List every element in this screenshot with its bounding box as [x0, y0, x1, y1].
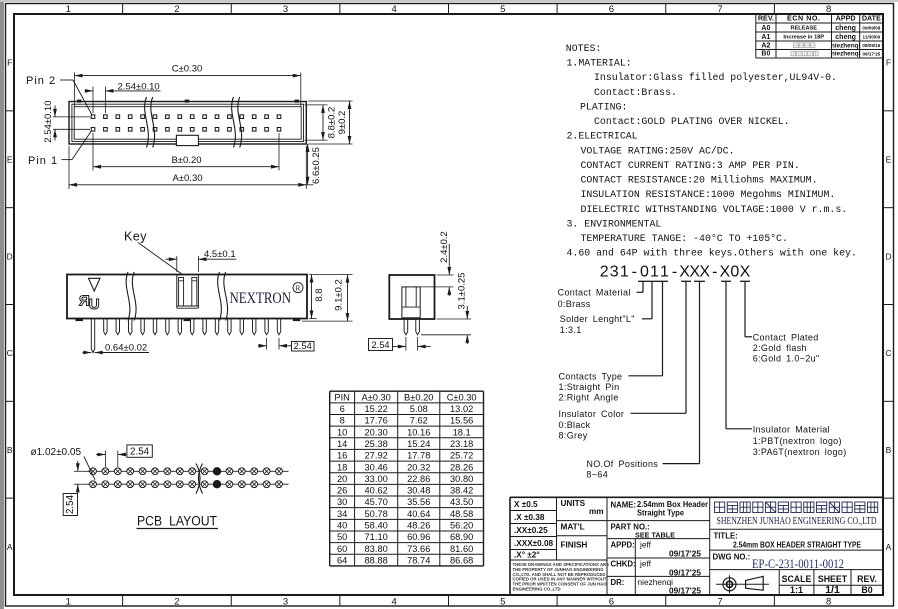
svg-text:TEMPERATURE TANGE: -40°C TO +1: TEMPERATURE TANGE: -40°C TO +105°C. [581, 233, 788, 244]
svg-text:C±0.30: C±0.30 [447, 392, 477, 402]
svg-text:B0: B0 [761, 51, 770, 58]
revision table grid [756, 13, 883, 15]
dimension C line [75, 75, 301, 77]
svg-text:25.38: 25.38 [365, 439, 388, 449]
svg-text:U: U [89, 296, 100, 313]
side view pitch extension lines [266, 338, 268, 350]
svg-text:A±0.30: A±0.30 [172, 173, 202, 184]
svg-text:2.4±0.2: 2.4±0.2 [439, 231, 450, 263]
svg-text:ECN NO.: ECN NO. [787, 14, 820, 23]
svg-text:2.54: 2.54 [371, 340, 389, 350]
top view center tab [176, 135, 198, 145]
svg-text:F: F [886, 58, 891, 68]
svg-text:73.66: 73.66 [407, 544, 430, 554]
svg-text:2: 2 [174, 597, 179, 608]
svg-text:SCALE: SCALE [782, 574, 812, 584]
svg-text:Solder Lenght"L": Solder Lenght"L" [560, 314, 635, 324]
dimension A extension lines [68, 146, 70, 189]
svg-text:6: 6 [609, 4, 614, 15]
side view break left [126, 272, 130, 321]
svg-text:8:Grey: 8:Grey [559, 431, 588, 441]
svg-text:34: 34 [337, 509, 347, 519]
svg-text:APPD: APPD [836, 14, 856, 23]
svg-text:6:Gold 1.0~2u": 6:Gold 1.0~2u" [753, 354, 820, 364]
svg-text:Contact Plated: Contact Plated [753, 333, 819, 343]
svg-text:B: B [7, 445, 13, 455]
svg-text:3: 3 [610, 264, 619, 281]
svg-text:1.MATERIAL:: 1.MATERIAL: [567, 58, 632, 69]
side view pitch line [258, 345, 267, 347]
side view pitch text box [292, 341, 315, 351]
svg-text:3: 3 [283, 4, 288, 15]
svg-text:20: 20 [337, 474, 347, 484]
svg-text:64: 64 [337, 555, 347, 565]
svg-text:56.20: 56.20 [450, 521, 473, 531]
svg-text:R: R [296, 284, 301, 292]
svg-text:8: 8 [826, 597, 831, 608]
top view cavity [74, 107, 301, 140]
svg-text:23.18: 23.18 [450, 439, 473, 449]
pcb row pitch text box [63, 494, 77, 516]
svg-text:PCB LAYOUT: PCB LAYOUT [137, 514, 217, 529]
svg-text:CONTACT CURRENT RATING:3 AMP P: CONTACT CURRENT RATING:3 AMP PER PIN. [581, 160, 800, 171]
svg-text:8: 8 [826, 4, 831, 15]
svg-text:F: F [7, 58, 12, 68]
svg-text:REV.: REV. [857, 574, 877, 584]
svg-text:REV.: REV. [758, 14, 774, 23]
svg-text:2.54mm BOX HEADER STRAIGHT TYP: 2.54mm BOX HEADER STRAIGHT TYPE [733, 539, 861, 549]
svg-text:15.56: 15.56 [450, 416, 473, 426]
svg-text:A: A [886, 542, 892, 552]
svg-text:0: 0 [640, 264, 649, 281]
grid tick marks [122, 4, 124, 15]
dimension B line [93, 166, 279, 168]
svg-text:58.40: 58.40 [365, 521, 388, 531]
side view key slot prongs [179, 277, 184, 306]
svg-text:11/30/09: 11/30/09 [863, 34, 881, 39]
svg-text:PIN: PIN [334, 392, 350, 402]
svg-text:E: E [7, 155, 13, 165]
svg-text:3:PA6T(nextron logo): 3:PA6T(nextron logo) [753, 447, 847, 457]
svg-text:CHKD:: CHKD: [611, 560, 636, 569]
svg-text:0.64±0.02: 0.64±0.02 [105, 342, 147, 353]
svg-text:C: C [885, 348, 891, 358]
svg-text:DIELECTRIC WITHSTANDING VOLTAG: DIELECTRIC WITHSTANDING VOLTAGE:1000 V r… [581, 204, 848, 215]
svg-text:INSULATION RESISTANCE:1000 Meg: INSULATION RESISTANCE:1000 Megohms MINIM… [581, 189, 836, 200]
svg-text:7: 7 [717, 597, 722, 608]
svg-text:13.02: 13.02 [450, 404, 473, 414]
dimension row pitch line [54, 106, 56, 117]
svg-text:7.62: 7.62 [410, 416, 428, 426]
svg-text:2.54: 2.54 [294, 341, 312, 351]
svg-text:33.00: 33.00 [365, 474, 388, 484]
svg-text:DWG NO.:: DWG NO.: [713, 552, 751, 561]
svg-text:10: 10 [337, 427, 347, 437]
svg-text:22.86: 22.86 [407, 474, 430, 484]
svg-text:20.30: 20.30 [365, 427, 388, 437]
svg-text:40: 40 [337, 521, 347, 531]
svg-text:6: 6 [609, 597, 614, 608]
svg-text:2.54±0.10: 2.54±0.10 [43, 100, 54, 142]
svg-text:48.58: 48.58 [450, 509, 473, 519]
svg-text:cheng: cheng [835, 25, 856, 32]
svg-text:A: A [7, 542, 13, 552]
svg-text:NAME:: NAME: [611, 501, 637, 510]
svg-text:Straight Type: Straight Type [637, 509, 685, 518]
svg-text:9±0.2: 9±0.2 [337, 111, 348, 135]
svg-text:30.48: 30.48 [407, 486, 430, 496]
svg-text:D: D [885, 251, 891, 261]
svg-text:10.16: 10.16 [407, 427, 430, 437]
projection symbol [716, 583, 769, 585]
scan edge left [0, 0, 4, 609]
molding mark triangle [89, 278, 101, 291]
svg-text:60.96: 60.96 [407, 532, 430, 542]
leader Key [138, 243, 182, 274]
svg-text:VOLTAGE RATING:250V AC/DC.: VOLTAGE RATING:250V AC/DC. [581, 145, 735, 156]
svg-text:3. ENVIRONMENTAL: 3. ENVIRONMENTAL [567, 218, 662, 229]
svg-text:PLATING:: PLATING: [580, 101, 627, 112]
scan edge top [0, 0, 898, 2]
svg-text:3: 3 [283, 597, 288, 608]
svg-text:27.92: 27.92 [365, 451, 388, 461]
svg-text:8.8: 8.8 [314, 288, 325, 301]
leader Pin 1 [62, 159, 73, 161]
dimension 9 line [349, 101, 351, 144]
svg-text:1: 1 [66, 597, 71, 608]
svg-text:C: C [7, 348, 13, 358]
svg-text:2.54: 2.54 [130, 447, 150, 458]
svg-text:-: - [632, 264, 637, 281]
registered trademark symbol [293, 283, 303, 293]
svg-text:Insulator:Glass filled polyest: Insulator:Glass filled polyester,UL94V-0… [594, 72, 837, 83]
svg-text:81.60: 81.60 [450, 544, 473, 554]
svg-text:09/17'25: 09/17'25 [669, 585, 701, 595]
svg-text:SEE TABLE: SEE TABLE [635, 531, 675, 540]
svg-text:-: - [672, 264, 677, 281]
svg-text:40.64: 40.64 [407, 509, 430, 519]
svg-text:.XXX±0.08: .XXX±0.08 [514, 539, 554, 548]
svg-text:A2: A2 [761, 42, 770, 49]
side view standoff bosses [76, 319, 84, 322]
side view key slot walls [176, 275, 178, 309]
svg-text:-: - [712, 264, 717, 281]
end view pitch text box [369, 339, 393, 351]
title block grid [510, 496, 883, 498]
svg-text:68.90: 68.90 [450, 532, 473, 542]
dimension 8.8 side line [311, 275, 313, 319]
side view right extension lines [309, 274, 353, 276]
svg-text:86.68: 86.68 [450, 555, 473, 565]
svg-text:2:Gold flash: 2:Gold flash [753, 343, 807, 353]
svg-text:9.1±0.2: 9.1±0.2 [333, 279, 344, 311]
svg-text:2.54: 2.54 [65, 494, 76, 514]
pcb pitch dim line [96, 454, 105, 456]
svg-text:C±0.30: C±0.30 [172, 64, 203, 75]
svg-text:5: 5 [500, 4, 505, 15]
svg-text:X: X [740, 264, 751, 281]
svg-text:08/09/16: 08/09/16 [862, 43, 880, 48]
svg-text:NOTES:: NOTES: [566, 43, 602, 54]
svg-text:SHENZHEN JUNHAO ENGINEERING CO: SHENZHEN JUNHAO ENGINEERING CO.,LTD [717, 516, 877, 527]
dimension 2.54 top line [85, 90, 94, 92]
pcb pitch text box [127, 445, 152, 457]
top view right extension lines [308, 100, 353, 102]
svg-text:16: 16 [337, 451, 347, 461]
dimension B extension lines [92, 133, 94, 171]
svg-text:Pin 1: Pin 1 [28, 155, 58, 167]
dimension 6.6 line [307, 144, 309, 185]
svg-text:4: 4 [392, 4, 397, 15]
svg-text:2.ELECTRICAL: 2.ELECTRICAL [567, 131, 638, 142]
svg-text:09/17'25: 09/17'25 [669, 549, 701, 559]
pcb break line [199, 464, 203, 494]
svg-text:niezhenqi: niezhenqi [831, 51, 861, 58]
svg-text:1:Straight Pin: 1:Straight Pin [559, 382, 620, 392]
top view body outline [69, 102, 306, 145]
pcb row pitch dim line [77, 461, 79, 471]
pcb pads (2 rows x 16) [90, 468, 97, 475]
svg-text:48.26: 48.26 [407, 521, 430, 531]
pcb pitch extension lines [104, 451, 106, 468]
svg-text:cheng: cheng [835, 34, 856, 41]
dimension 4.5 line [166, 258, 177, 260]
svg-text:X: X [699, 264, 710, 281]
svg-text:2: 2 [174, 4, 179, 15]
svg-text:Contact Material: Contact Material [558, 288, 631, 298]
svg-text:5: 5 [500, 597, 505, 608]
part number callout leaders [638, 280, 648, 282]
svg-text:4.60 and 64P with three keys.O: 4.60 and 64P with three keys.Others with… [567, 248, 857, 259]
top view break line left [145, 97, 149, 148]
svg-text:17.76: 17.76 [365, 416, 388, 426]
UL recognized mark [79, 293, 100, 314]
svg-text:.X ±0.38: .X ±0.38 [514, 513, 545, 522]
svg-text:Contact:Brass.: Contact:Brass. [594, 87, 677, 98]
side view pins [91, 319, 94, 353]
svg-text:40.62: 40.62 [365, 486, 388, 496]
svg-text:2.54±0.10: 2.54±0.10 [118, 82, 160, 93]
svg-text:Increase in 18P: Increase in 18P [783, 35, 824, 41]
svg-text:EP-C-231-0011-0012: EP-C-231-0011-0012 [752, 557, 844, 571]
svg-text:71.10: 71.10 [365, 532, 388, 542]
svg-text:FINISH: FINISH [561, 541, 588, 550]
company chinese name [715, 502, 725, 513]
dimension 2.4 extension lines [437, 274, 454, 276]
svg-text:A1: A1 [761, 34, 770, 41]
svg-text:15.24: 15.24 [407, 439, 430, 449]
svg-text:8~64: 8~64 [586, 470, 608, 480]
svg-text:0:Brass: 0:Brass [558, 299, 591, 309]
svg-text:17.78: 17.78 [407, 451, 430, 461]
end view body outline [389, 275, 434, 319]
svg-text:83.80: 83.80 [365, 544, 388, 554]
svg-text:B±0.20: B±0.20 [171, 155, 201, 166]
svg-text:18: 18 [337, 462, 347, 472]
top view break line right [232, 97, 236, 148]
svg-text:NEXTRON: NEXTRON [230, 290, 292, 307]
pcb hole leader [84, 457, 95, 480]
svg-text:15.22: 15.22 [365, 404, 388, 414]
top view inner shroud [72, 104, 304, 141]
svg-text:jeff: jeff [639, 559, 652, 569]
svg-text:E: E [886, 155, 892, 165]
leader Pin 2 [60, 79, 73, 81]
svg-text:1: 1 [660, 264, 669, 281]
svg-text:30: 30 [337, 497, 347, 507]
svg-text:X: X [719, 264, 730, 281]
svg-text:ø1.02±0.05: ø1.02±0.05 [31, 447, 82, 458]
dimension 3.1 line [466, 306, 468, 319]
svg-text:ENGINEERING CO.,LTD: ENGINEERING CO.,LTD [513, 587, 561, 592]
svg-text:1:3.1: 1:3.1 [560, 325, 582, 335]
top view contact pins (2 rows x 16) [91, 115, 95, 119]
svg-text:niezhenqi: niezhenqi [831, 42, 861, 49]
dimension C extension lines [74, 73, 76, 108]
svg-text:60: 60 [337, 544, 347, 554]
svg-text:CONTACT RESISTANCE:20 Milliohm: CONTACT RESISTANCE:20 Milliohms MAXIMUM. [581, 175, 818, 186]
svg-text:Insulator Material: Insulator Material [753, 425, 830, 435]
dimension row pitch extension lines [53, 116, 90, 118]
svg-text:DR:: DR: [611, 578, 625, 587]
svg-text:Contact:GOLD PLATING OVER NICK: Contact:GOLD PLATING OVER NICKEL. [594, 116, 790, 127]
svg-text:20.32: 20.32 [407, 462, 430, 472]
svg-text:09/17'25: 09/17'25 [669, 567, 701, 577]
pcb row pitch extension lines [74, 470, 90, 472]
svg-text:18.1: 18.1 [453, 427, 471, 437]
svg-text:1: 1 [620, 264, 629, 281]
svg-text:4.5±0.1: 4.5±0.1 [204, 249, 236, 260]
svg-text:B0: B0 [861, 585, 872, 595]
top view polarizing bosses [77, 100, 82, 103]
svg-text:A±0.30: A±0.30 [361, 392, 390, 402]
svg-text:6: 6 [340, 404, 345, 414]
end view key slot [402, 287, 420, 318]
dimension 3.1 extension lines [437, 318, 472, 320]
dimension 0.64 line [83, 352, 92, 354]
svg-text:0:Black: 0:Black [559, 420, 591, 430]
svg-text:Insulator Color: Insulator Color [559, 409, 625, 419]
svg-text:28.26: 28.26 [450, 462, 473, 472]
svg-text:Contacts Type: Contacts Type [559, 371, 623, 381]
svg-text:APPD:: APPD: [611, 541, 635, 550]
svg-text:7: 7 [717, 4, 722, 15]
svg-text:UNITS: UNITS [561, 499, 586, 508]
svg-text:3.1±0.25: 3.1±0.25 [456, 273, 467, 310]
svg-text:25.72: 25.72 [450, 451, 473, 461]
svg-text:26: 26 [337, 486, 347, 496]
dimension 9.1 line [347, 275, 349, 322]
svg-text:50.78: 50.78 [365, 509, 388, 519]
side view break right [218, 272, 222, 321]
svg-text:8.8±0.2: 8.8±0.2 [326, 107, 337, 139]
svg-text:09/17'25: 09/17'25 [862, 51, 880, 56]
svg-text:Pin 2: Pin 2 [26, 75, 56, 87]
side view body outline [67, 275, 307, 319]
svg-text:1/1: 1/1 [825, 584, 840, 596]
svg-text:Key: Key [124, 230, 147, 244]
svg-text:78.74: 78.74 [407, 555, 430, 565]
svg-text:D: D [7, 251, 13, 261]
svg-text:45.70: 45.70 [365, 497, 388, 507]
svg-text:MAT'L: MAT'L [561, 523, 585, 532]
svg-text:30.80: 30.80 [450, 474, 473, 484]
svg-text:B: B [886, 445, 892, 455]
svg-text:0: 0 [730, 264, 739, 281]
svg-text:RELEASE: RELEASE [791, 26, 818, 32]
end view pins [404, 319, 408, 335]
svg-text:88.88: 88.88 [365, 555, 388, 565]
svg-text:09/09/08: 09/09/08 [862, 25, 880, 30]
dimension 2.4 line [448, 244, 450, 275]
svg-text:50: 50 [337, 532, 347, 542]
end view pitch line [393, 346, 406, 348]
svg-text:DATE: DATE [862, 14, 881, 23]
svg-text:A0: A0 [761, 25, 770, 32]
svg-text:.X° ±2°: .X° ±2° [514, 550, 540, 559]
svg-text:38.42: 38.42 [450, 486, 473, 496]
svg-text:2:Right Angle: 2:Right Angle [559, 393, 619, 403]
svg-text:6.6±0.25: 6.6±0.25 [311, 147, 322, 184]
svg-text:1:PBT(nextron logo): 1:PBT(nextron logo) [753, 436, 842, 446]
dimension A line [69, 184, 306, 186]
svg-text:4: 4 [392, 597, 397, 608]
dimension 8.8 top line [322, 105, 324, 140]
svg-text:8: 8 [340, 416, 345, 426]
svg-text:43.50: 43.50 [450, 497, 473, 507]
svg-text:1: 1 [650, 264, 659, 281]
dimension 2.54 top extension lines [92, 87, 94, 114]
svg-text:SHEET: SHEET [818, 574, 848, 584]
svg-text:niezhenqi: niezhenqi [638, 577, 674, 587]
svg-text:30.46: 30.46 [365, 462, 388, 472]
dimension 4.5 extension lines [176, 256, 178, 272]
svg-text:X ±0.5: X ±0.5 [514, 500, 538, 509]
pcb row lines [88, 470, 289, 472]
svg-text:5.08: 5.08 [410, 404, 428, 414]
end view pitch extension lines [405, 337, 407, 351]
svg-text:1:1: 1:1 [790, 585, 803, 595]
svg-text:14: 14 [337, 439, 347, 449]
svg-text:35.56: 35.56 [407, 497, 430, 507]
svg-text:2: 2 [600, 264, 609, 281]
svg-text:B±0.20: B±0.20 [404, 392, 433, 402]
svg-text:mm: mm [589, 507, 604, 516]
svg-text:.XX±0.25: .XX±0.25 [514, 526, 548, 535]
svg-text:1: 1 [66, 4, 71, 15]
pin table grid [330, 390, 484, 392]
svg-text:NO.Of Positions: NO.Of Positions [586, 459, 658, 469]
svg-text:jeff: jeff [639, 540, 652, 550]
